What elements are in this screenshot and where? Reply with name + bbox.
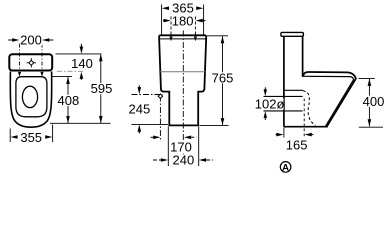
svg-text:245: 245 bbox=[129, 102, 151, 117]
svg-text:102ø: 102ø bbox=[255, 97, 285, 112]
svg-text:595: 595 bbox=[91, 81, 113, 96]
svg-text:A: A bbox=[282, 162, 289, 173]
svg-text:200: 200 bbox=[20, 33, 42, 48]
svg-text:240: 240 bbox=[173, 153, 195, 168]
svg-text:140: 140 bbox=[71, 56, 93, 71]
svg-text:355: 355 bbox=[20, 130, 42, 145]
svg-text:765: 765 bbox=[212, 70, 234, 85]
svg-text:180: 180 bbox=[172, 13, 194, 28]
svg-text:165: 165 bbox=[286, 138, 308, 153]
svg-text:408: 408 bbox=[58, 93, 80, 108]
svg-text:400: 400 bbox=[363, 94, 385, 109]
